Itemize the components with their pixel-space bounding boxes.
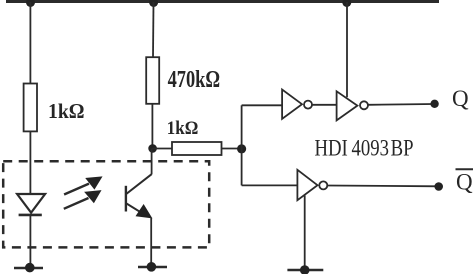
wire node A down to Q1 collector [151, 149, 153, 175]
node junction dot left on rail [26, 0, 35, 7]
node junction dot right on rail [342, 0, 351, 7]
svg-text:1kΩ: 1kΩ [48, 99, 85, 123]
ground bar under Q1 [138, 266, 167, 268]
wire node B vertical to gate inputs [241, 105, 243, 185]
LED D1 triangle [17, 194, 45, 213]
svg-text:1kΩ: 1kΩ [167, 118, 199, 139]
wire node B to U1A input [242, 104, 283, 106]
resistor R1 1kOhm vertical box [24, 84, 37, 132]
svg-text:470kΩ: 470kΩ [168, 67, 221, 93]
wire Q1 emitter to ground [150, 218, 152, 267]
inverter U1A bubble [304, 101, 312, 109]
svg-text:Q: Q [452, 86, 469, 111]
overline of Qbar [456, 168, 474, 170]
resistor R2 470kOhm vertical box [146, 57, 159, 104]
wire U1B output to terminal Q [368, 103, 435, 106]
LED D1 cathode bar [19, 214, 42, 217]
ground bar under LED [14, 267, 43, 269]
inverter U1B triangle [337, 91, 358, 120]
svg-text:Q: Q [456, 170, 473, 195]
inverter U1A triangle [282, 90, 302, 119]
wire top supply rail [6, 0, 439, 3]
wire R1 bottom to LED anode [29, 131, 31, 194]
resistor R3 1kOhm horizontal box [172, 142, 222, 155]
wire U1A output to U1B input [312, 104, 337, 106]
light arrow 2 shaft [64, 198, 89, 209]
transistor Q1 base bar [125, 186, 127, 212]
wire R2 bottom to node A [151, 104, 153, 149]
inverter U1C triangle [297, 170, 317, 200]
node junction dot middle on rail [149, 0, 158, 7]
light arrow 2 head [85, 191, 101, 203]
light arrow 1 shaft [64, 184, 89, 195]
node B junction dot [237, 144, 246, 153]
wire middle branch from rail to R2 [152, 2, 155, 57]
wire left branch from rail to R1 [29, 2, 31, 84]
inverter U1B bubble [360, 101, 368, 109]
svg-text:HDI 4093 BP: HDI 4093 BP [315, 136, 414, 161]
ground node dot under LED [25, 263, 35, 273]
transistor Q1 emitter lead [126, 203, 147, 216]
optocoupler dashed enclosure [3, 161, 209, 247]
wire node B to U1C input [242, 184, 298, 186]
transistor Q1 emitter arrow head [136, 205, 151, 218]
wire R3 right to node B [222, 148, 243, 150]
transistor Q1 collector lead [126, 174, 151, 194]
node A junction dot (R2 / R3 / collector) [148, 144, 157, 153]
light arrow 1 head [86, 177, 101, 189]
wire LED cathode to ground [29, 215, 31, 268]
wire node A to R3 left [152, 148, 172, 150]
ground node dot under U1C [300, 265, 310, 274]
terminal dot Q [430, 100, 438, 108]
wire U1C output to terminal Qbar [327, 185, 438, 188]
wire U1C second input down to ground [304, 196, 306, 271]
terminal dot Qbar [434, 182, 443, 191]
wire rail to U1B second input [346, 2, 348, 97]
ground bar under U1C [287, 269, 323, 271]
inverter U1C bubble [319, 181, 327, 189]
ground node dot under Q1 [147, 262, 157, 272]
